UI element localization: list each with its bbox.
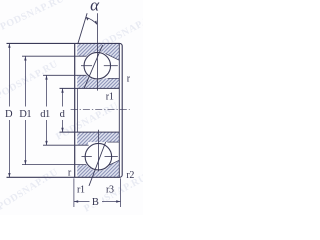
svg-text:D: D xyxy=(5,109,13,120)
ball bottom xyxy=(85,143,112,170)
alpha arc xyxy=(86,17,97,24)
raceway groove bottom (white punch) xyxy=(84,143,112,171)
ball bottom horizontal ticks xyxy=(82,156,92,158)
dimension D1 line xyxy=(24,56,26,164)
svg-text:D1: D1 xyxy=(19,109,31,120)
svg-text:r2: r2 xyxy=(126,170,134,181)
centerline axis xyxy=(71,109,130,111)
inner ring shoulder line d1 bottom xyxy=(43,144,89,146)
ball bottom center vertical xyxy=(97,130,99,172)
ball top horizontal ticks xyxy=(81,65,92,67)
B extension lines xyxy=(73,178,75,207)
svg-text:α: α xyxy=(90,0,100,15)
contact line through bottom ball xyxy=(89,142,106,186)
bore line bottom (d) xyxy=(60,131,120,133)
dimension d line xyxy=(61,88,63,132)
inner ring right land bottom xyxy=(108,141,120,143)
bearing left face xyxy=(74,43,76,177)
outer ring shoulder line D1 top xyxy=(22,55,87,57)
shoulder slant bottom right xyxy=(106,160,120,167)
bearing outline top/right/bottom xyxy=(7,43,123,177)
inner ring top section (hatched) xyxy=(77,75,119,88)
outer ring shoulder line D1 bottom xyxy=(22,164,86,166)
svg-text:r3: r3 xyxy=(106,185,114,196)
inner ring shoulder line d1 top xyxy=(43,74,86,76)
label gaps xyxy=(3,107,68,121)
shoulder slant top right xyxy=(106,54,120,61)
dimension B line xyxy=(74,200,121,202)
outer ring top section (hatched) xyxy=(77,43,119,60)
right face inner line xyxy=(118,44,120,177)
dimension D line xyxy=(8,43,10,177)
dimension d1 line xyxy=(45,75,47,145)
ball top center vertical / alpha construction vertical xyxy=(96,13,98,90)
inner ring right land top xyxy=(108,77,120,79)
svg-text:d1: d1 xyxy=(40,109,50,120)
alpha incline line xyxy=(78,13,87,43)
svg-text:r1: r1 xyxy=(106,92,114,103)
svg-text:d: d xyxy=(60,109,66,120)
outer ring bottom section (hatched) xyxy=(77,160,119,177)
bore line top (d) xyxy=(60,87,120,89)
contact line through top ball xyxy=(84,45,102,88)
ball top xyxy=(84,52,111,79)
raceway groove top (white punch) xyxy=(83,51,111,79)
svg-text:r1: r1 xyxy=(77,185,85,196)
bore chamfer line left xyxy=(77,88,79,132)
inner ring bottom section (hatched) xyxy=(77,132,119,145)
svg-text:B: B xyxy=(92,197,99,208)
watermark PODSNAP.RU tiles xyxy=(0,0,161,215)
